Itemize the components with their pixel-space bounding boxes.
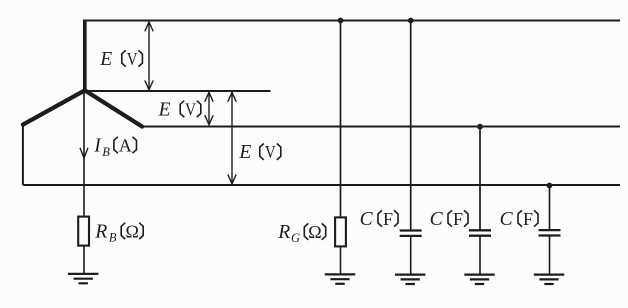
transformer winding left diagonal (thick) [23, 90, 85, 124]
svg-text:C: C [430, 209, 444, 230]
capacitor C3 [539, 230, 561, 235]
wire: C2 to ground [479, 237, 481, 275]
svg-text:F: F [453, 209, 463, 229]
ground symbol for C3 [534, 275, 564, 284]
svg-text:I: I [93, 136, 102, 157]
label E [V] upper [99, 49, 142, 70]
svg-text:G: G [291, 231, 300, 245]
svg-text:C: C [500, 209, 514, 230]
svg-text:C: C [360, 209, 374, 230]
svg-text:R: R [94, 221, 107, 242]
bottom conductor wire [23, 184, 620, 186]
label C [F] for C3 [500, 209, 538, 230]
label C [F] for C2 [430, 209, 468, 230]
svg-text:A: A [119, 136, 132, 156]
ground symbol for C1 [395, 275, 425, 284]
label RG [ohm] [277, 222, 326, 245]
current arrow IB (on wire, pointing down) [80, 148, 88, 159]
third conductor wire [142, 126, 620, 128]
wire: RB to ground [83, 246, 85, 274]
voltage arrow E2 (middle wire to third wire) [205, 92, 213, 124]
junction dot on top wire at C1 branch [408, 18, 414, 24]
wire: neutral down through IB to resistor RB [83, 91, 85, 217]
label RB [ohm] [94, 221, 143, 244]
capacitor C1 [400, 231, 422, 236]
wire: C2 branch vertical from third wire [479, 127, 481, 231]
junction dot on third wire at C2 branch [477, 124, 483, 130]
label E [V] lower [238, 142, 280, 163]
svg-text:F: F [523, 209, 533, 229]
transformer winding right diagonal (thick) [85, 90, 142, 126]
ground symbol for C2 [464, 275, 494, 284]
svg-text:V: V [265, 142, 276, 162]
wire: C3 branch vertical from bottom wire [549, 186, 551, 231]
svg-text:R: R [277, 222, 290, 243]
wire: RG to ground [340, 246, 342, 274]
resistor RG [335, 217, 346, 246]
svg-text:V: V [127, 49, 138, 69]
svg-text:E: E [99, 49, 112, 70]
svg-text:B: B [109, 230, 117, 244]
label E [V] middle [158, 99, 201, 120]
voltage arrow E1 (top wire to middle wire) [145, 22, 153, 90]
ground symbol for RG [325, 274, 355, 283]
wire: RG branch vertical from top wire [340, 21, 342, 218]
label IB [A] [93, 136, 136, 159]
transformer secondary winding vertical lead (thick) [83, 20, 87, 92]
left drop wire from winding end [22, 124, 24, 185]
svg-text:E: E [238, 142, 251, 163]
svg-text:Ω: Ω [308, 222, 321, 242]
wire: C3 to ground [549, 237, 551, 275]
voltage arrow E3 (middle wire to bottom wire) [228, 92, 236, 184]
capacitor C2 [469, 230, 491, 235]
svg-text:E: E [158, 99, 171, 120]
svg-text:F: F [383, 209, 393, 229]
neutral (middle) conductor wire [84, 90, 271, 92]
ground symbol for RB [68, 274, 98, 283]
svg-text:Ω: Ω [126, 221, 139, 241]
label C [F] for C1 [360, 209, 398, 230]
junction dot on bottom wire at C3 branch [547, 183, 553, 189]
wire: C1 branch vertical from top wire [410, 21, 412, 231]
junction dot on top wire at RG branch [338, 18, 344, 24]
svg-text:V: V [185, 99, 196, 119]
resistor RB [78, 217, 89, 246]
wire: C1 to ground [410, 237, 412, 275]
svg-text:B: B [102, 145, 110, 159]
top phase conductor wire [83, 20, 620, 22]
